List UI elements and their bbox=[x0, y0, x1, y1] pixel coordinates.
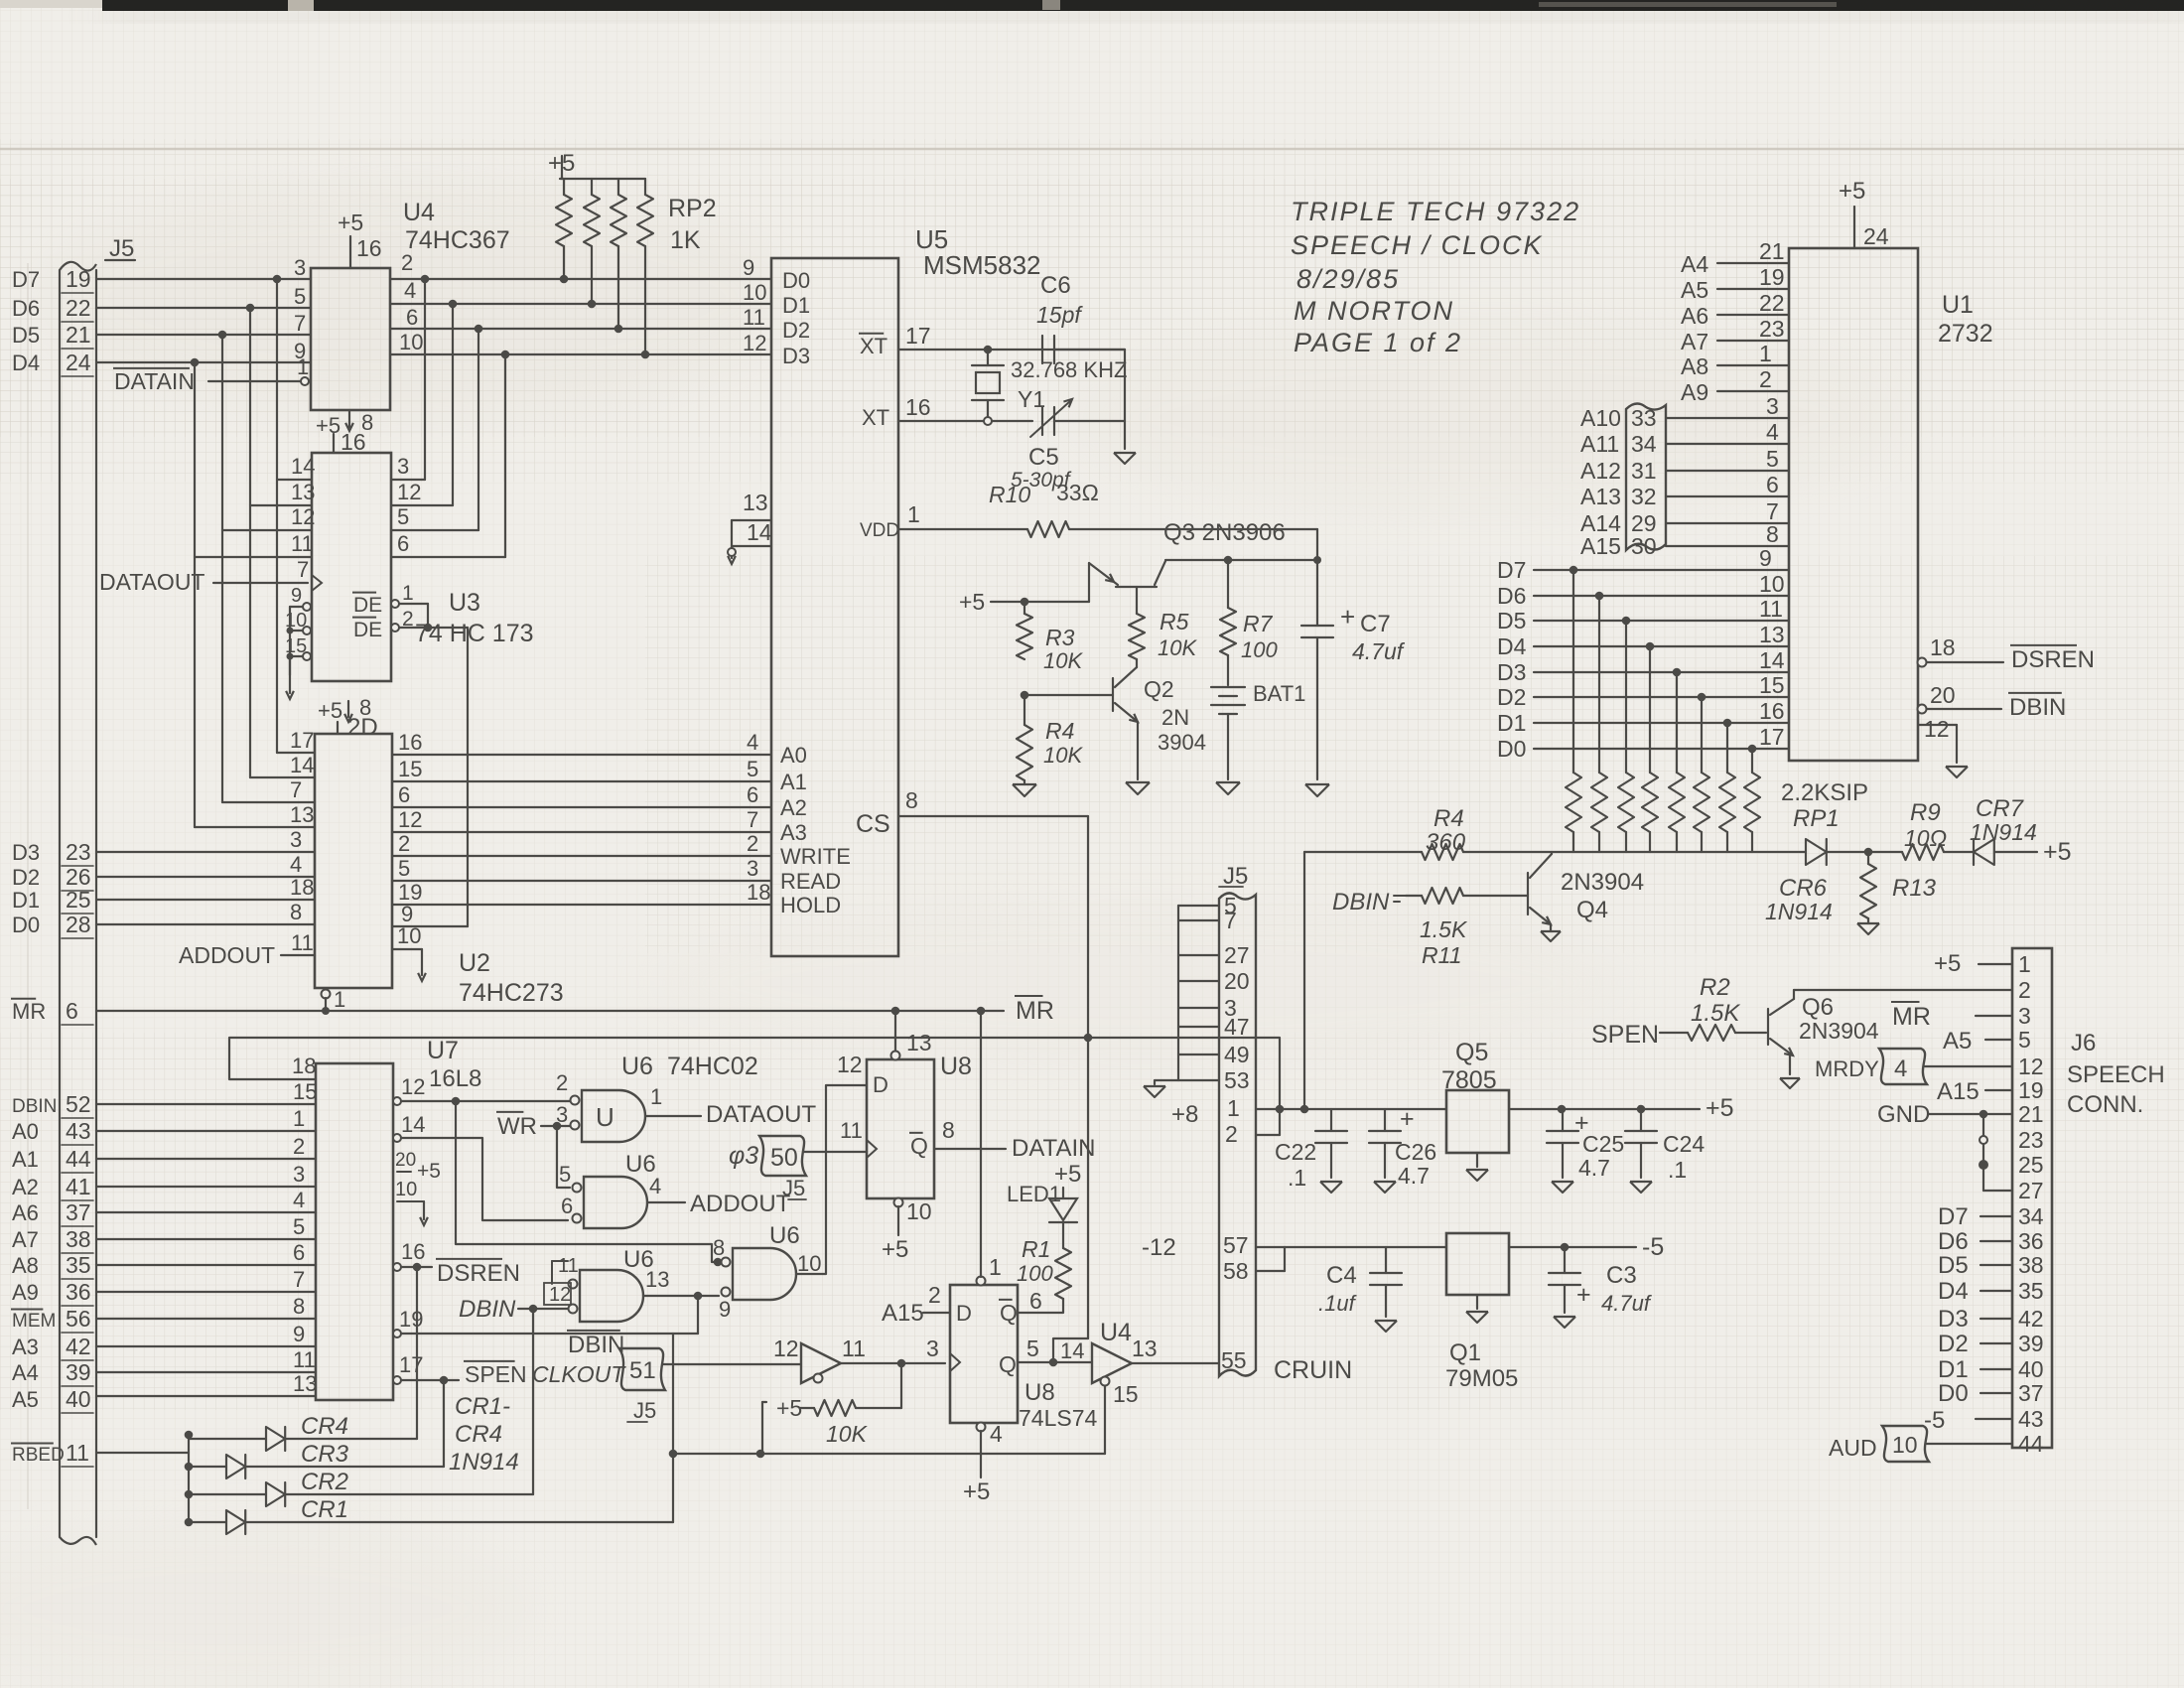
svg-text:49: 49 bbox=[1224, 1042, 1250, 1067]
svg-text:WRITE: WRITE bbox=[780, 844, 851, 869]
svg-text:A10: A10 bbox=[1580, 405, 1621, 431]
wire U7.12 to gate4 pin8 bbox=[456, 1101, 722, 1262]
svg-text:9: 9 bbox=[719, 1297, 731, 1322]
svg-text:A2: A2 bbox=[780, 795, 807, 820]
svg-text:3: 3 bbox=[290, 827, 302, 852]
svg-text:8: 8 bbox=[293, 1294, 305, 1319]
svg-text:U7: U7 bbox=[427, 1037, 459, 1064]
RP2 resistor 3 bbox=[617, 179, 619, 195]
RP1 resistor for D0 bbox=[1748, 745, 1757, 754]
svg-text:J5: J5 bbox=[633, 1398, 656, 1423]
ground crystal bbox=[1114, 453, 1136, 464]
svg-text:R10: R10 bbox=[989, 482, 1030, 507]
gate U6b ADDOUT bbox=[584, 1177, 647, 1228]
resistor R10 33ohm bbox=[1027, 521, 1069, 537]
svg-text:13: 13 bbox=[291, 480, 315, 504]
svg-text:C24: C24 bbox=[1663, 1131, 1705, 1157]
svg-text:3: 3 bbox=[397, 454, 409, 479]
svg-text:+5: +5 bbox=[1706, 1094, 1734, 1122]
wire -12 rail bbox=[1285, 1246, 1446, 1248]
svg-text:RP2: RP2 bbox=[668, 195, 717, 222]
junction bbox=[614, 325, 623, 334]
svg-text:8: 8 bbox=[290, 900, 302, 924]
svg-text:11: 11 bbox=[291, 930, 314, 955]
svg-text:1: 1 bbox=[334, 987, 345, 1012]
svg-text:WR: WR bbox=[497, 1113, 537, 1140]
svg-text:1N914: 1N914 bbox=[1765, 899, 1833, 924]
svg-text:-12: -12 bbox=[1142, 1234, 1176, 1261]
svg-text:13: 13 bbox=[1759, 622, 1785, 647]
svg-text:5: 5 bbox=[397, 504, 409, 529]
svg-text:3: 3 bbox=[747, 856, 758, 881]
svg-text:MR: MR bbox=[12, 999, 46, 1024]
svg-text:VDD: VDD bbox=[860, 520, 899, 541]
diode CR2 bbox=[189, 1493, 266, 1495]
svg-text:18: 18 bbox=[747, 880, 770, 905]
svg-text:1: 1 bbox=[1759, 341, 1772, 366]
svg-text:D3: D3 bbox=[1497, 659, 1526, 685]
U1 pin 20 DBIN output bbox=[1918, 705, 1927, 714]
svg-text:2: 2 bbox=[401, 250, 413, 275]
svg-text:23: 23 bbox=[66, 839, 91, 865]
svg-text:8: 8 bbox=[905, 787, 918, 813]
svg-text:1: 1 bbox=[297, 354, 309, 379]
svg-text:4: 4 bbox=[290, 852, 302, 877]
junction bbox=[641, 351, 650, 359]
svg-text:R4: R4 bbox=[1433, 805, 1464, 832]
svg-text:D4: D4 bbox=[1497, 633, 1527, 659]
svg-text:4: 4 bbox=[1894, 1055, 1907, 1082]
svg-text:C22: C22 bbox=[1275, 1139, 1316, 1165]
svg-text:2N: 2N bbox=[1161, 705, 1189, 730]
svg-text:16: 16 bbox=[356, 235, 382, 261]
svg-text:20: 20 bbox=[1930, 682, 1956, 708]
svg-text:6: 6 bbox=[747, 782, 758, 807]
svg-text:6: 6 bbox=[406, 305, 418, 330]
svg-text:2: 2 bbox=[293, 1134, 305, 1159]
capacitor C7 4.7uf bbox=[1301, 625, 1333, 627]
svg-text:12: 12 bbox=[291, 504, 315, 529]
U7 pin 14 output bbox=[393, 1134, 401, 1142]
svg-text:21: 21 bbox=[1759, 238, 1785, 264]
svg-text:Q: Q bbox=[910, 1133, 928, 1159]
gate U6c DBIN nor bbox=[580, 1270, 643, 1322]
svg-text:11: 11 bbox=[842, 1336, 866, 1361]
capacitor C26 4.7 bbox=[1384, 1109, 1386, 1131]
wire crystal right leg bbox=[1124, 350, 1126, 449]
svg-text:19: 19 bbox=[399, 1307, 423, 1332]
RP2 resistor 4 bbox=[644, 179, 646, 195]
resistor R3 10K bbox=[1017, 614, 1032, 659]
svg-text:HOLD: HOLD bbox=[780, 893, 841, 917]
resistor R7 100 bbox=[1227, 560, 1229, 608]
svg-text:11: 11 bbox=[293, 1347, 316, 1372]
svg-text:16: 16 bbox=[341, 429, 366, 455]
svg-text:D7: D7 bbox=[12, 267, 40, 292]
svg-text:U4: U4 bbox=[403, 199, 435, 226]
svg-text:D6: D6 bbox=[12, 296, 40, 321]
svg-text:A0: A0 bbox=[12, 1119, 39, 1144]
U2 pin 1 to MR bbox=[322, 990, 331, 999]
U3 tie ground bbox=[289, 656, 291, 693]
svg-text:D2: D2 bbox=[1497, 684, 1526, 710]
resistor R2 1.5K bbox=[1688, 1025, 1735, 1041]
svg-text:D: D bbox=[873, 1072, 888, 1097]
svg-text:D6: D6 bbox=[1938, 1228, 1969, 1255]
svg-text:53: 53 bbox=[1224, 1067, 1250, 1093]
regulator Q5 7805 bbox=[1446, 1090, 1509, 1153]
wire +8 net from U7.18 to J5 pin1 bbox=[229, 1038, 1280, 1135]
svg-text:CLKOUT: CLKOUT bbox=[532, 1361, 626, 1387]
junction bbox=[560, 275, 569, 284]
svg-text:R5: R5 bbox=[1160, 609, 1189, 634]
resistor R1 100 bbox=[1055, 1248, 1071, 1299]
transistor Q4 2N3904 bbox=[1527, 873, 1529, 914]
svg-text:A1: A1 bbox=[780, 770, 807, 794]
svg-text:360: 360 bbox=[1426, 829, 1466, 856]
svg-text:13: 13 bbox=[293, 1371, 317, 1396]
buffer U4a (12->11) bbox=[801, 1343, 841, 1383]
svg-text:12: 12 bbox=[2018, 1054, 2044, 1079]
svg-text:Q2: Q2 bbox=[1144, 676, 1174, 702]
svg-text:27: 27 bbox=[1224, 942, 1250, 968]
svg-text:40: 40 bbox=[2018, 1356, 2044, 1382]
svg-text:15: 15 bbox=[293, 1079, 317, 1104]
svg-text:DATAOUT: DATAOUT bbox=[99, 569, 205, 595]
svg-text:A5: A5 bbox=[1943, 1028, 1972, 1055]
svg-text:A15: A15 bbox=[882, 1300, 924, 1327]
svg-text:10: 10 bbox=[395, 1179, 417, 1200]
svg-text:U8: U8 bbox=[940, 1053, 972, 1080]
svg-text:79M05: 79M05 bbox=[1445, 1365, 1518, 1392]
wire D5 drop to U3.12 and U2.7 bbox=[221, 335, 223, 802]
svg-text:18: 18 bbox=[292, 1054, 316, 1078]
RP1 resistor for D1 bbox=[1723, 719, 1732, 728]
svg-text:6: 6 bbox=[398, 782, 410, 807]
ground BAT1 bbox=[1216, 782, 1240, 794]
svg-text:14: 14 bbox=[1060, 1338, 1084, 1363]
svg-text:A3: A3 bbox=[780, 820, 807, 845]
svg-text:6: 6 bbox=[1766, 472, 1779, 497]
svg-text:5: 5 bbox=[293, 1214, 305, 1239]
svg-text:7: 7 bbox=[293, 1267, 305, 1292]
svg-text:D5: D5 bbox=[1497, 608, 1526, 633]
svg-text:5: 5 bbox=[2018, 1027, 2031, 1053]
svg-text:51: 51 bbox=[629, 1357, 656, 1384]
svg-text:15: 15 bbox=[398, 757, 422, 781]
svg-text:D1: D1 bbox=[1938, 1356, 1969, 1383]
svg-text:CR3: CR3 bbox=[301, 1441, 349, 1468]
svg-text:+5: +5 bbox=[959, 589, 985, 615]
svg-text:52: 52 bbox=[66, 1091, 91, 1117]
svg-text:A7: A7 bbox=[1681, 329, 1708, 354]
connector J5 middle bbox=[1219, 893, 1256, 1376]
gate U6d bbox=[733, 1248, 796, 1300]
svg-text:44: 44 bbox=[2018, 1431, 2044, 1457]
svg-text:CONN.: CONN. bbox=[2067, 1091, 2143, 1118]
svg-text:D3: D3 bbox=[1938, 1306, 1969, 1333]
svg-text:9: 9 bbox=[1759, 545, 1772, 571]
diode CR4 bbox=[189, 1438, 266, 1440]
svg-text:1N914: 1N914 bbox=[1970, 819, 2037, 845]
svg-text:+8: +8 bbox=[1171, 1101, 1198, 1128]
ground Q4 bbox=[1541, 931, 1561, 941]
crystal Y1 32.768KHZ bbox=[984, 346, 993, 354]
svg-text:74HC367: 74HC367 bbox=[405, 226, 510, 254]
svg-text:37: 37 bbox=[66, 1199, 91, 1225]
svg-text:9: 9 bbox=[743, 255, 754, 280]
svg-text:MR: MR bbox=[1016, 997, 1054, 1025]
svg-text:R13: R13 bbox=[1892, 875, 1937, 902]
svg-text:CS: CS bbox=[856, 810, 890, 838]
svg-text:R4: R4 bbox=[1045, 718, 1074, 744]
svg-text:1.5K: 1.5K bbox=[1691, 1000, 1740, 1027]
svg-text:24: 24 bbox=[66, 350, 91, 375]
svg-text:4.7uf: 4.7uf bbox=[1601, 1291, 1653, 1316]
svg-text:58: 58 bbox=[1223, 1258, 1249, 1284]
svg-text:5: 5 bbox=[294, 284, 306, 309]
resistor R4 10K bbox=[1017, 725, 1032, 780]
svg-text:20: 20 bbox=[395, 1150, 416, 1171]
capacitor C24 .1 bbox=[1640, 1109, 1642, 1131]
svg-text:φ3: φ3 bbox=[729, 1142, 758, 1170]
svg-text:1: 1 bbox=[650, 1084, 662, 1109]
svg-text:14: 14 bbox=[291, 454, 315, 479]
svg-text:2.2KSIP: 2.2KSIP bbox=[1781, 779, 1868, 806]
wire Q to buffer U4b with 14 tie bbox=[1053, 1338, 1088, 1362]
svg-text:A15: A15 bbox=[1580, 533, 1621, 559]
RP1 resistor for D5 bbox=[1622, 617, 1631, 626]
svg-text:Q4: Q4 bbox=[1576, 897, 1608, 923]
svg-text:22: 22 bbox=[66, 295, 91, 321]
svg-text:4: 4 bbox=[293, 1188, 305, 1212]
svg-text:1: 1 bbox=[907, 501, 920, 527]
svg-text:16: 16 bbox=[398, 730, 422, 755]
svg-text:13: 13 bbox=[645, 1267, 669, 1292]
svg-text:A1: A1 bbox=[12, 1147, 39, 1172]
svg-text:R1: R1 bbox=[1022, 1236, 1050, 1262]
RP1 resistor for D4 bbox=[1646, 642, 1655, 651]
U8a pin 10 +5 bbox=[894, 1198, 903, 1207]
svg-text:C6: C6 bbox=[1040, 272, 1071, 299]
svg-text:14: 14 bbox=[401, 1112, 425, 1137]
svg-text:9: 9 bbox=[291, 585, 302, 607]
ground R13 bbox=[1857, 923, 1879, 934]
svg-text:A4: A4 bbox=[12, 1360, 39, 1385]
svg-text:TRIPLE TECH 97322: TRIPLE TECH 97322 bbox=[1291, 197, 1580, 226]
capacitor C22 .1 bbox=[1330, 1109, 1332, 1131]
wire Q6 collector to J6 pin2 bbox=[1794, 989, 2012, 991]
svg-text:10: 10 bbox=[743, 280, 766, 305]
svg-text:22: 22 bbox=[1759, 290, 1785, 316]
svg-text:12: 12 bbox=[549, 1284, 571, 1306]
svg-text:BAT1: BAT1 bbox=[1253, 681, 1305, 706]
svg-text:DSREN: DSREN bbox=[2011, 646, 2095, 673]
connector J6 box bbox=[2012, 948, 2052, 1448]
svg-text:Q: Q bbox=[1000, 1300, 1018, 1326]
junction bbox=[273, 275, 282, 284]
wire D6 drop to U3.13 and U2.14 bbox=[249, 308, 251, 777]
svg-text:4.7: 4.7 bbox=[1578, 1155, 1610, 1181]
svg-text:34: 34 bbox=[1631, 431, 1657, 457]
svg-text:13: 13 bbox=[290, 802, 314, 827]
U8b pin 4 +5 bbox=[977, 1423, 986, 1432]
svg-text:6: 6 bbox=[397, 531, 409, 556]
svg-text:A6: A6 bbox=[1681, 303, 1708, 329]
wire CR4 up to DSREN bbox=[416, 1267, 418, 1439]
svg-text:25: 25 bbox=[2018, 1152, 2044, 1178]
capacitor C5 5-30pf variable bbox=[1041, 407, 1043, 435]
svg-text:DBIN: DBIN bbox=[1332, 889, 1390, 915]
svg-text:U3: U3 bbox=[449, 589, 480, 617]
svg-text:CR1-: CR1- bbox=[455, 1393, 510, 1420]
svg-text:J6: J6 bbox=[2071, 1030, 2096, 1056]
svg-text:30: 30 bbox=[1631, 533, 1657, 559]
svg-text:57: 57 bbox=[1223, 1232, 1249, 1258]
svg-text:C5: C5 bbox=[1028, 444, 1059, 471]
svg-text:21: 21 bbox=[2018, 1101, 2044, 1127]
ground Q2 bbox=[1126, 782, 1150, 794]
svg-text:3904: 3904 bbox=[1158, 730, 1206, 755]
svg-text:4: 4 bbox=[404, 278, 416, 303]
junction bbox=[449, 300, 458, 309]
U7 pin 19 output DBIN-bar net bbox=[393, 1330, 401, 1337]
svg-text:1.5K: 1.5K bbox=[1420, 916, 1468, 942]
svg-text:A9: A9 bbox=[1681, 379, 1708, 405]
U7 pin 17 SPEN output bbox=[393, 1376, 401, 1384]
svg-text:2: 2 bbox=[556, 1070, 568, 1095]
svg-text:2: 2 bbox=[1759, 366, 1772, 392]
svg-text:D0: D0 bbox=[12, 913, 40, 937]
svg-text:1N914: 1N914 bbox=[449, 1449, 519, 1476]
svg-text:2N3904: 2N3904 bbox=[1799, 1018, 1879, 1044]
svg-text:11: 11 bbox=[291, 531, 314, 556]
RP1 resistor for D2 bbox=[1698, 693, 1706, 702]
svg-text:A15: A15 bbox=[1937, 1078, 1979, 1105]
svg-text:R9: R9 bbox=[1910, 799, 1941, 826]
svg-text:GND: GND bbox=[1877, 1101, 1930, 1128]
svg-text:44: 44 bbox=[66, 1146, 91, 1172]
svg-text:+5: +5 bbox=[1934, 950, 1961, 977]
wire +5 rail bbox=[1280, 1108, 1446, 1110]
wire CR1/enable vertical bbox=[672, 1334, 674, 1522]
svg-text:M NORTON: M NORTON bbox=[1294, 296, 1454, 326]
svg-text:C7: C7 bbox=[1360, 611, 1391, 637]
diode CR7 1N914 bbox=[1974, 839, 1994, 865]
svg-text:DBIN: DBIN bbox=[568, 1332, 624, 1358]
diode CR1 bbox=[189, 1521, 226, 1523]
svg-text:13: 13 bbox=[743, 490, 768, 515]
svg-text:SPEECH: SPEECH bbox=[2067, 1061, 2165, 1088]
svg-text:43: 43 bbox=[2018, 1406, 2044, 1432]
svg-text:12: 12 bbox=[743, 331, 766, 355]
svg-text:50: 50 bbox=[770, 1144, 798, 1172]
svg-text:2: 2 bbox=[2018, 977, 2031, 1003]
svg-text:A8: A8 bbox=[1681, 353, 1708, 379]
svg-text:Q1: Q1 bbox=[1449, 1339, 1481, 1366]
svg-text:Q: Q bbox=[999, 1351, 1017, 1377]
svg-text:6: 6 bbox=[1029, 1288, 1042, 1314]
svg-text:11: 11 bbox=[1759, 596, 1783, 622]
diode CR6 1N914 bbox=[1806, 839, 1827, 865]
svg-text:35: 35 bbox=[66, 1252, 91, 1278]
svg-text:2: 2 bbox=[1225, 1121, 1238, 1147]
svg-text:DSREN: DSREN bbox=[437, 1260, 520, 1287]
svg-text:16: 16 bbox=[401, 1239, 425, 1264]
svg-text:25: 25 bbox=[66, 887, 91, 913]
svg-text:A12: A12 bbox=[1580, 458, 1621, 484]
svg-text:+5: +5 bbox=[417, 1160, 441, 1183]
connector J5 left bus bbox=[59, 270, 61, 1537]
svg-text:2: 2 bbox=[398, 831, 410, 856]
svg-text:+5: +5 bbox=[2043, 838, 2072, 866]
battery BAT1 bbox=[1227, 655, 1229, 685]
ground J5 bbox=[1144, 1086, 1165, 1097]
svg-text:10: 10 bbox=[797, 1251, 821, 1276]
IC U7 16L8 box bbox=[316, 1063, 393, 1400]
svg-text:J5: J5 bbox=[109, 235, 134, 262]
svg-text:D2: D2 bbox=[782, 318, 810, 343]
svg-text:74 HC 173: 74 HC 173 bbox=[415, 620, 534, 647]
IC U2 74HC273 box bbox=[315, 734, 392, 988]
svg-text:XT: XT bbox=[860, 334, 887, 358]
svg-text:A8: A8 bbox=[12, 1253, 39, 1278]
svg-text:ADDOUT: ADDOUT bbox=[179, 942, 275, 968]
svg-text:Q3 2N3906: Q3 2N3906 bbox=[1163, 519, 1286, 546]
svg-text:MR: MR bbox=[1892, 1003, 1931, 1031]
svg-text:7805: 7805 bbox=[1441, 1066, 1497, 1094]
svg-text:100: 100 bbox=[1017, 1261, 1053, 1286]
svg-text:+: + bbox=[1340, 602, 1355, 632]
capacitor C3 4.7uf bbox=[1564, 1247, 1566, 1273]
regulator Q1 79M05 bbox=[1446, 1233, 1509, 1295]
svg-text:CR4: CR4 bbox=[301, 1413, 348, 1440]
svg-text:D5: D5 bbox=[12, 323, 40, 348]
svg-text:+: + bbox=[1400, 1105, 1415, 1133]
svg-text:D: D bbox=[956, 1301, 972, 1326]
svg-text:4: 4 bbox=[1766, 419, 1779, 445]
svg-text:C25: C25 bbox=[1582, 1131, 1624, 1157]
svg-text:10: 10 bbox=[397, 923, 421, 948]
svg-text:J5: J5 bbox=[1223, 863, 1248, 890]
svg-text:12: 12 bbox=[773, 1336, 799, 1361]
svg-text:16L8: 16L8 bbox=[429, 1065, 481, 1092]
svg-text:41: 41 bbox=[66, 1174, 91, 1199]
junction bbox=[501, 351, 510, 359]
resistor R9 10ohm bbox=[1868, 851, 1902, 853]
svg-text:7: 7 bbox=[290, 777, 302, 802]
svg-text:XT: XT bbox=[862, 405, 889, 430]
svg-text:16: 16 bbox=[905, 394, 931, 420]
wire J5 ground bus bbox=[1177, 906, 1179, 1080]
svg-text:14: 14 bbox=[747, 519, 772, 545]
svg-text:MEM: MEM bbox=[12, 1311, 56, 1332]
wire VDD rail to C7 bbox=[1069, 528, 1317, 530]
svg-text:MSM5832: MSM5832 bbox=[923, 250, 1041, 280]
svg-text:D5: D5 bbox=[1938, 1252, 1969, 1279]
U8b pin 1 to MR bbox=[977, 1277, 986, 1286]
svg-text:ADDOUT: ADDOUT bbox=[690, 1191, 791, 1217]
svg-text:2: 2 bbox=[928, 1282, 941, 1308]
svg-text:+5: +5 bbox=[318, 698, 342, 723]
svg-text:6: 6 bbox=[561, 1194, 573, 1218]
svg-text:READ: READ bbox=[780, 869, 841, 894]
svg-text:1: 1 bbox=[402, 582, 414, 605]
wire CS down bbox=[1087, 816, 1089, 1338]
junction bbox=[246, 304, 255, 313]
svg-text:12: 12 bbox=[397, 480, 421, 504]
svg-text:9: 9 bbox=[293, 1322, 305, 1346]
